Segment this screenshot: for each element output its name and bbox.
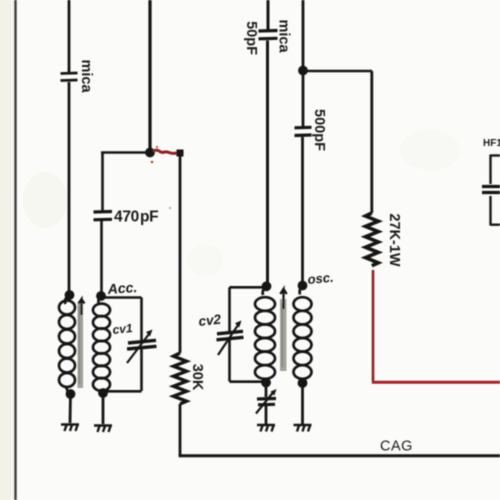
trimmer capacitor arrow [256, 393, 273, 414]
variable capacitor cv2 arrow [218, 325, 238, 355]
wire: T1 primary bottom lead to ground [69, 394, 72, 423]
wire: T2 primary bottom lead to trimmer [265, 383, 268, 398]
transformer T1 secondary coil L2 [93, 296, 110, 394]
transformer T1 (Acc.) primary coil L1 [59, 295, 75, 394]
wire: 500pF lower lead down to T2 secondary top [301, 137, 304, 285]
svg-text:mica: mica [78, 59, 94, 93]
wire: 27K branch vertical (x=372) [370, 71, 373, 213]
wire: trimmer lower lead to ground [265, 406, 268, 424]
wire: CAG bus (horizontal to right edge) [179, 454, 500, 457]
transformer T1 core [78, 302, 84, 388]
wire: cv1 branch right vertical lower [140, 349, 143, 391]
node square terminal (180,153) [177, 150, 184, 157]
wire: cv1 branch bottom horizontal [103, 390, 142, 393]
ground (T2 primary) [257, 425, 275, 432]
wire: cv2 branch left vertical upper [228, 287, 231, 331]
svg-text:50pF: 50pF [243, 21, 259, 55]
wire: plate line vertical top (x=303 from top edge to node B) [302, 0, 305, 70]
wire: vertical feed to node A (x=150) [148, 0, 151, 152]
transformer T1 tuning arrow [79, 299, 85, 315]
node dot T2 secondary top [298, 281, 308, 291]
svg-text:30K: 30K [189, 364, 205, 391]
wire: cv1 branch right vertical upper [140, 298, 143, 341]
transformer T2 core [280, 299, 286, 371]
wire: antenna line top segment (x=69, above mica cap) [68, 0, 71, 72]
wire: vertical from square terminal down to R 30K (x=180) [179, 156, 182, 353]
resistor R 30K (zigzag) [174, 353, 187, 404]
variable capacitor cv1 plates [127, 340, 157, 349]
trimmer capacitor (padder) plates [257, 399, 276, 405]
svg-text:470pF: 470pF [114, 209, 158, 226]
resistor R 27K-1W (zigzag) [366, 213, 379, 266]
svg-text:CAG: CAG [380, 439, 413, 455]
red annotation wire from node A to square terminal [153, 150, 178, 153]
wire: left vertical edge wire [14, 0, 16, 500]
wire: cv2 branch left vertical lower [228, 340, 231, 382]
node dot T1 secondary top [96, 291, 106, 301]
left beige margin strip [0, 0, 11, 500]
svg-text:HF1: HF1 [483, 138, 500, 149]
svg-text:500pF: 500pF [311, 109, 327, 151]
wire: node B down to 500pF [302, 70, 305, 127]
wire: cv2 branch top horizontal [230, 286, 267, 289]
svg-text:cv1: cv1 [112, 321, 134, 337]
node dot T1 secondary bottom [98, 388, 108, 398]
wire: antenna line lower segment (x=69, mica cap to T1 primary top) [68, 82, 71, 295]
ground (T1 secondary) [94, 426, 112, 433]
svg-text:cv2: cv2 [198, 312, 222, 329]
svg-text:Acc.: Acc. [106, 279, 138, 297]
svg-text:27K-1W: 27K-1W [386, 213, 402, 266]
node dot T2 primary top [262, 281, 272, 291]
capacitor mica (top-left) [61, 73, 78, 81]
wire: T1 secondary bottom lead to ground [102, 393, 105, 424]
IF transformer HF1 box left edge [491, 155, 500, 226]
wire: cv2 branch bottom horizontal [230, 380, 267, 383]
node dot T1 primary bottom [66, 389, 76, 399]
svg-text:osc.: osc. [307, 270, 334, 287]
wire: oscillator grid line lower segment (x=268 down to T2 primary top) [266, 41, 269, 287]
capacitor C 500pF [295, 127, 312, 135]
node A junction dot (150,152) [145, 148, 155, 158]
faint scan smudges [23, 172, 67, 228]
transformer T2 tuning arrow [280, 289, 286, 309]
transformer T2 (osc.) primary coil L3 [255, 286, 275, 383]
node dot T1 primary top [65, 290, 75, 300]
wire: oscillator grid line top segment (x=268 above 50pF) [267, 0, 270, 30]
svg-text:mica: mica [276, 19, 292, 53]
variable capacitor cv1 arrow [127, 334, 149, 363]
capacitor C 470pF [94, 212, 113, 220]
ground (T1 primary) [61, 425, 79, 432]
wire: cv1 branch top horizontal [101, 296, 142, 299]
wire: T2 secondary bottom lead to ground [301, 383, 304, 424]
capacitor inside HF1 [482, 187, 500, 193]
ground (T2 secondary) [294, 425, 312, 432]
wire: 470pF branch lower lead down to T1 secondary top [100, 221, 103, 296]
wire: R 30K bottom lead down to CAG bus corner [179, 404, 182, 456]
wire: horizontal from node B to 27K branch [303, 70, 372, 73]
variable capacitor cv2 plates [217, 331, 244, 340]
node dot T2 primary bottom [261, 378, 271, 388]
wire: red AVC wire vertical from R 27K down [372, 270, 375, 381]
capacitor C 50pF mica [259, 31, 278, 39]
transformer T2 secondary coil L4 [294, 286, 312, 384]
wire: red AVC wire horizontal to right edge [372, 381, 500, 384]
node dot T2 secondary bottom [298, 378, 308, 388]
node B junction dot (303,70) [298, 66, 308, 76]
wire: horizontal from node A to 470pF branch [101, 151, 150, 154]
wire: 470pF branch upper lead (x=102) [101, 153, 104, 212]
